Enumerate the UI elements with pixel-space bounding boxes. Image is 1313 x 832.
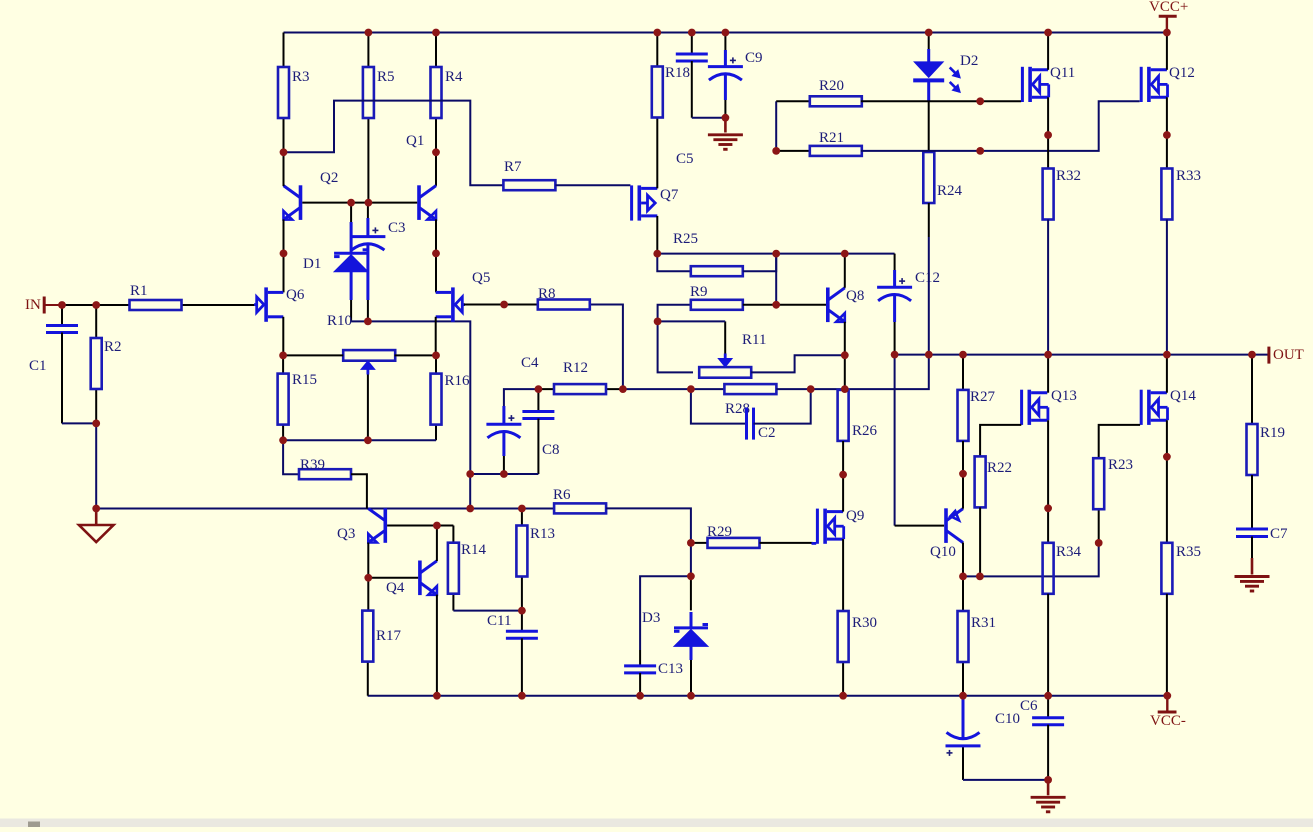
wire C13 branch	[640, 576, 691, 650]
svg-text:Q11: Q11	[1050, 65, 1075, 81]
wire C4/C8 bottom row	[470, 473, 538, 475]
port IN	[25, 297, 62, 314]
wire Q10 collector node row	[963, 543, 1099, 577]
svg-text:R15: R15	[292, 372, 317, 388]
wire R9 left	[658, 305, 693, 373]
junction	[687, 692, 695, 700]
wire Q10 collector to R31	[962, 543, 964, 612]
svg-text:R8: R8	[538, 286, 556, 302]
capacitor C6	[1020, 696, 1064, 780]
svg-text:R23: R23	[1108, 457, 1133, 473]
transistor Q7	[630, 185, 679, 220]
resistor R39 right wire	[351, 474, 367, 508]
potentiometer R10	[327, 313, 395, 361]
ground earth under C7	[1235, 558, 1270, 591]
wire Q12 source pin	[1166, 97, 1168, 168]
svg-text:C5: C5	[676, 151, 694, 167]
junction	[807, 385, 815, 393]
resistor R13	[516, 509, 555, 611]
svg-text:R12: R12	[563, 360, 588, 376]
svg-text:R11: R11	[742, 332, 766, 348]
junction	[92, 420, 100, 428]
wire R11 right to Q8 emitter	[751, 355, 845, 372]
wire C5 bottom lead	[691, 61, 693, 118]
transistor Q5	[436, 270, 491, 322]
svg-text:Q9: Q9	[846, 508, 864, 524]
svg-text:C3: C3	[388, 220, 406, 236]
wire Q10 base pin	[895, 525, 945, 527]
junction	[722, 29, 730, 37]
junction	[772, 147, 780, 155]
resistor R26	[838, 390, 878, 441]
wire Q3 emitter to R17	[367, 543, 369, 611]
resistor R23	[1093, 457, 1133, 509]
resistor R28	[724, 384, 776, 417]
junction	[772, 250, 780, 258]
junction	[841, 351, 849, 359]
junction	[687, 539, 695, 547]
junction	[1044, 504, 1052, 512]
junction	[1044, 131, 1052, 139]
diode D1 anode lead	[350, 300, 352, 321]
diode D3 anode lead	[690, 660, 692, 696]
diode D1 top lead	[350, 203, 352, 222]
wire Q1-Q2 base bus	[302, 202, 417, 204]
wire R20 right to Q11 gate	[861, 100, 1021, 102]
junction	[432, 29, 440, 37]
resistor R7	[503, 159, 555, 190]
diode D1	[303, 222, 368, 300]
wire Q7 drain to R18	[656, 118, 658, 189]
capacitor C9	[708, 33, 763, 118]
junction	[1044, 29, 1052, 37]
resistor R31	[958, 611, 997, 696]
svg-text:R39: R39	[300, 457, 325, 473]
wire R10 right	[395, 354, 436, 356]
wire Q4 emitter pin	[436, 595, 438, 696]
svg-text:R31: R31	[971, 615, 996, 631]
svg-text:Q14: Q14	[1170, 388, 1196, 404]
wire R22 bottom pin	[979, 507, 981, 576]
wire R29 right to Q9 gate	[760, 542, 813, 544]
svg-text:R1: R1	[130, 283, 148, 299]
svg-text:R3: R3	[292, 69, 310, 85]
resistor R6	[553, 487, 606, 513]
svg-text:D1: D1	[303, 256, 321, 272]
scrollbar strip	[0, 819, 1313, 828]
svg-text:R21: R21	[819, 130, 844, 146]
resistor R33	[1161, 168, 1201, 220]
svg-text:VCC-: VCC-	[1150, 713, 1186, 729]
capacitor C13 top lead	[639, 650, 641, 666]
svg-text:R34: R34	[1056, 544, 1082, 560]
LED D2	[913, 33, 978, 93]
svg-text:R27: R27	[970, 389, 996, 405]
capacitor C2 left wire	[691, 389, 747, 424]
capacitor C8	[522, 389, 559, 474]
resistor R39 left wire	[283, 440, 299, 474]
junction	[535, 385, 543, 393]
resistor R15	[278, 355, 317, 440]
diode D3	[642, 610, 708, 660]
port OUT	[1269, 347, 1304, 364]
junction	[280, 250, 288, 258]
wire R25/R9 right vertical	[775, 254, 777, 305]
capacitor C4	[486, 355, 539, 474]
junction	[280, 148, 288, 156]
capacitor C3	[350, 203, 405, 314]
wire C7 bottom lead	[1251, 537, 1253, 559]
wire R27 bottom to Q10 emitter	[962, 441, 964, 509]
junction	[1044, 692, 1052, 700]
svg-text:Q6: Q6	[286, 287, 305, 303]
resistor R4	[431, 33, 464, 186]
svg-text:Q8: Q8	[846, 288, 864, 304]
wire Q2 collector pin	[283, 152, 285, 186]
resistor R16	[431, 355, 471, 440]
junction	[365, 29, 373, 37]
wire R35 bottom pin	[1166, 594, 1168, 696]
svg-text:C13: C13	[658, 661, 683, 677]
wire OUT rail to Q10 base	[894, 355, 896, 526]
svg-text:R10: R10	[327, 313, 352, 329]
svg-text:C11: C11	[487, 613, 511, 629]
junction	[347, 199, 355, 207]
svg-text:R16: R16	[445, 373, 471, 389]
capacitor C10	[946, 696, 1021, 780]
wire Q11 drain pin	[1047, 33, 1049, 70]
wire R32 bottom to OUT rail	[1047, 220, 1049, 355]
wire R3 node to R7 / Q7 gate	[284, 101, 504, 186]
wire Q13 source to R34	[1047, 420, 1049, 543]
wire Q9 source to R30	[842, 539, 844, 611]
wire R14/R13 bottom row	[453, 610, 522, 612]
resistor R34	[1043, 543, 1082, 594]
resistor R17	[362, 611, 401, 696]
wire R34 bottom pin	[1047, 594, 1049, 696]
resistor R22	[975, 456, 1012, 507]
wire R8 right riser to R12	[590, 305, 623, 390]
capacitor C11	[487, 611, 538, 696]
ground earth under C9	[708, 118, 743, 150]
port VCC+	[1149, 0, 1188, 33]
resistor R5	[363, 33, 395, 203]
svg-text:Q5: Q5	[472, 270, 490, 286]
svg-text:D2: D2	[960, 53, 978, 69]
svg-text:R30: R30	[852, 615, 877, 631]
wire Q14 drain pin	[1166, 355, 1168, 393]
transistor Q12	[1140, 65, 1195, 102]
junction	[772, 301, 780, 309]
transistor Q1	[406, 133, 436, 220]
transistor Q3	[337, 508, 387, 543]
transistor Q4	[386, 561, 437, 597]
wire Q7 source node to C12	[657, 253, 894, 255]
junction	[518, 607, 526, 615]
svg-text:C6: C6	[1020, 698, 1038, 714]
svg-text:R33: R33	[1176, 168, 1201, 184]
wire C3 bottom lead	[367, 314, 369, 321]
svg-text:R4: R4	[445, 69, 463, 85]
junction	[841, 250, 849, 258]
svg-text:R26: R26	[852, 423, 878, 439]
capacitor C1	[29, 305, 78, 423]
capacitor C7	[1236, 526, 1288, 542]
wire R24 bottom pin	[928, 203, 930, 237]
wire Q2 emitter to Q6 drain	[283, 219, 285, 292]
resistor R21	[776, 130, 862, 156]
wire Q1 emitter to Q5 drain	[435, 219, 437, 292]
junction	[433, 522, 441, 530]
wire R7 to Q7 gate	[555, 184, 630, 186]
wire R25 right	[743, 254, 776, 272]
junction	[925, 351, 933, 359]
junction	[364, 574, 372, 582]
wire IN node	[62, 304, 96, 306]
junction	[976, 573, 984, 581]
svg-text:R5: R5	[377, 69, 395, 85]
wire bottom negative rail	[368, 695, 1168, 697]
wire D2 cathode to R24	[928, 101, 930, 152]
svg-text:C7: C7	[1270, 526, 1288, 542]
ground earth bottom	[1031, 780, 1066, 812]
junction	[466, 505, 474, 513]
wire R9 right to Q8 base	[743, 304, 828, 306]
potentiometer R10 wiper arrow	[361, 361, 375, 440]
junction	[959, 692, 967, 700]
svg-text:R29: R29	[707, 524, 732, 540]
svg-text:VCC+: VCC+	[1149, 0, 1188, 15]
wire Q4 base wire	[368, 577, 418, 579]
wire Q4 collector pin	[436, 526, 438, 562]
wire Q14 source to R35	[1166, 420, 1168, 543]
svg-text:Q10: Q10	[930, 544, 956, 560]
junction	[653, 250, 661, 258]
wire R12 node to R28	[623, 388, 725, 390]
capacitor C12	[877, 270, 940, 355]
resistor R39	[299, 457, 351, 479]
svg-text:R13: R13	[530, 526, 555, 542]
junction	[279, 352, 287, 360]
svg-text:R32: R32	[1056, 168, 1081, 184]
junction	[839, 471, 847, 479]
svg-text:Q2: Q2	[320, 170, 338, 186]
wire feedback bus	[96, 508, 554, 510]
resistor R3	[278, 33, 310, 153]
junction	[500, 301, 508, 309]
wire R23 bottom pin	[1098, 509, 1100, 543]
svg-text:R18: R18	[665, 65, 690, 81]
junction	[619, 385, 627, 393]
junction	[1163, 692, 1171, 700]
svg-text:Q1: Q1	[406, 133, 424, 149]
transistor Q10	[930, 508, 963, 560]
svg-text:R6: R6	[553, 487, 571, 503]
wire R6 right riser	[606, 508, 691, 543]
wire C5 to C9 ground node	[692, 117, 726, 119]
junction	[364, 436, 372, 444]
wire riser to feedback bus	[469, 474, 471, 509]
junction	[687, 385, 695, 393]
wire R19 bottom pin	[1251, 475, 1253, 529]
junction	[1163, 351, 1171, 359]
wire Q14 gate wire	[1099, 425, 1140, 458]
junction	[959, 351, 967, 359]
junction	[466, 470, 474, 478]
resistor R2	[91, 305, 122, 423]
junction	[1248, 351, 1256, 359]
wire D3 branch riser	[690, 543, 692, 576]
resistor R24	[923, 152, 962, 203]
resistor R27	[958, 355, 996, 441]
svg-text:IN: IN	[25, 297, 41, 313]
capacitor C2 right wire	[754, 389, 811, 424]
wire C10 to ground node	[963, 779, 1048, 781]
svg-text:R24: R24	[937, 183, 963, 199]
svg-text:C1: C1	[29, 358, 47, 374]
wire Q13 gate wire	[980, 425, 1021, 457]
svg-text:C10: C10	[995, 711, 1020, 727]
junction	[688, 29, 696, 37]
wire Q6 source pin	[282, 317, 284, 356]
svg-text:R25: R25	[673, 231, 698, 247]
junction	[976, 97, 984, 105]
wire R25 left	[657, 254, 691, 272]
svg-text:C2: C2	[758, 425, 776, 441]
wire R14 top pin	[452, 526, 454, 543]
wire C1/R2 bottom to ground node	[62, 423, 96, 508]
transistor Q9	[816, 508, 864, 544]
junction	[1163, 131, 1171, 139]
junction	[722, 114, 730, 122]
wire VCC+ top rail	[284, 32, 1167, 34]
wire R26 bottom pin	[842, 441, 844, 475]
junction	[433, 692, 441, 700]
resistor R29	[691, 524, 760, 548]
junction	[959, 573, 967, 581]
junction	[518, 505, 526, 513]
junction	[365, 199, 373, 207]
junction	[653, 29, 661, 37]
wire Q9 drain to R26	[842, 475, 844, 512]
potentiometer R11	[699, 332, 766, 378]
ground GND input	[79, 509, 114, 543]
svg-text:OUT: OUT	[1273, 347, 1304, 363]
wire Q13 drain pin	[1047, 355, 1049, 393]
wire Q7 source pin	[656, 216, 658, 254]
wire R10 node row	[351, 321, 470, 474]
junction	[432, 148, 440, 156]
wire R10 left	[283, 354, 343, 356]
junction	[959, 470, 967, 478]
junction	[1095, 539, 1103, 547]
transistor Q9 gate lead	[812, 542, 817, 545]
wire Q8 collector pin	[844, 254, 846, 288]
junction	[500, 470, 508, 478]
resistor R30	[838, 611, 877, 696]
resistor R20	[776, 78, 862, 106]
junction	[891, 351, 899, 359]
wire R28 right to OUT rail riser	[776, 355, 928, 390]
junction	[687, 572, 695, 580]
wire R21 right to Q12 gate riser	[861, 101, 1140, 151]
svg-text:C8: C8	[542, 442, 560, 458]
resistor R8	[538, 286, 590, 310]
junction	[925, 29, 933, 37]
svg-text:D3: D3	[642, 610, 660, 626]
wire Q3 base bus	[387, 525, 453, 527]
resistor R25	[673, 231, 743, 276]
transistor Q2	[284, 170, 339, 220]
capacitor C4 top wire	[504, 389, 539, 406]
svg-text:Q13: Q13	[1051, 388, 1077, 404]
transistor Q8	[826, 288, 864, 323]
svg-text:C4: C4	[521, 355, 539, 371]
resistor R1	[96, 283, 257, 310]
resistor R12	[538, 360, 623, 394]
junction	[92, 301, 100, 309]
junction	[841, 385, 849, 393]
wire R24 to OUT rail	[928, 237, 930, 355]
resistor R14	[448, 542, 487, 611]
svg-text:R2: R2	[104, 339, 122, 355]
capacitor C13	[624, 661, 683, 696]
junction	[1044, 351, 1052, 359]
svg-text:R14: R14	[461, 542, 487, 558]
junction	[636, 692, 644, 700]
wire D2 cathode lead	[927, 84, 930, 101]
junction	[432, 352, 440, 360]
svg-text:R7: R7	[504, 159, 522, 175]
junction	[92, 505, 100, 513]
junction	[839, 692, 847, 700]
junction	[58, 301, 66, 309]
svg-text:Q12: Q12	[1169, 65, 1195, 81]
wire R15/R16 bottom row	[283, 439, 436, 441]
transistor Q13	[1020, 388, 1077, 425]
transistor Q14	[1140, 388, 1197, 425]
junction	[976, 147, 984, 155]
svg-text:R17: R17	[376, 628, 402, 644]
junction	[1044, 776, 1052, 784]
wire Q8 emitter pin	[844, 322, 846, 389]
junction	[518, 692, 526, 700]
svg-text:Q7: Q7	[660, 187, 679, 203]
resistor R32	[1043, 168, 1081, 220]
wire OUT rail	[895, 354, 1269, 356]
transistor Q11	[1021, 65, 1075, 102]
svg-text:Q3: Q3	[337, 526, 355, 542]
resistor R18	[652, 33, 690, 118]
wire Q5 gate to R8	[464, 304, 538, 306]
junction	[279, 436, 287, 444]
junction	[432, 250, 440, 258]
resistor R35	[1161, 543, 1201, 594]
junction	[364, 318, 372, 326]
wire Q12 drain pin	[1166, 33, 1168, 70]
wire Q11 source pin	[1047, 97, 1049, 168]
resistor R19	[1247, 355, 1286, 475]
svg-text:R19: R19	[1260, 425, 1285, 441]
svg-text:C9: C9	[745, 50, 763, 66]
junction	[1163, 29, 1171, 37]
svg-text:R20: R20	[819, 78, 844, 94]
resistor R9	[690, 284, 743, 310]
capacitor C2	[747, 408, 776, 441]
potentiometer R11 wiper arrow	[658, 321, 733, 367]
wire Q5 source pin	[435, 317, 437, 356]
svg-text:Q4: Q4	[386, 580, 405, 596]
